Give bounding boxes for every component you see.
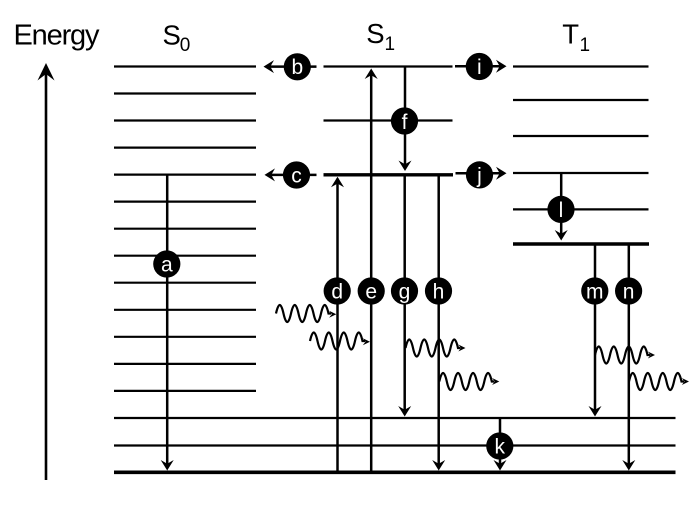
arrow d head	[331, 177, 344, 188]
S0 level line v4	[114, 282, 256, 284]
svg-text:h: h	[433, 280, 445, 303]
arrow f head	[399, 161, 412, 172]
S1 zero level thick line	[324, 173, 454, 176]
svg-text:1: 1	[385, 34, 396, 55]
circle label k	[486, 432, 513, 459]
arrow b shaft	[266, 65, 317, 68]
photon wave into d	[276, 305, 331, 322]
photon wave from h	[439, 373, 494, 390]
photon wave from g head	[458, 345, 465, 352]
arrow l head	[555, 230, 568, 241]
arrow j head	[496, 167, 507, 180]
S0 level line v0	[114, 390, 256, 392]
arrow a head	[161, 460, 174, 471]
ground vibrational line upper	[114, 417, 676, 419]
circle label j	[466, 161, 493, 188]
svg-text:c: c	[291, 164, 302, 187]
svg-text:S: S	[163, 19, 181, 50]
svg-text:k: k	[495, 435, 506, 458]
circle label m	[581, 277, 608, 304]
svg-text:b: b	[291, 56, 303, 79]
circle label f	[391, 107, 418, 134]
arrow e head	[365, 69, 378, 80]
S0 level line v5	[114, 255, 256, 257]
arrow c head	[265, 168, 276, 181]
svg-text:Energy: Energy	[14, 20, 101, 52]
svg-text:f: f	[402, 111, 408, 134]
arrow m shaft	[594, 244, 597, 414]
S0 level line v9	[114, 147, 256, 149]
S0 level line v1	[114, 363, 256, 365]
ground vibrational line lower	[114, 444, 676, 446]
S0 level line v8	[114, 174, 256, 176]
svg-text:m: m	[586, 280, 604, 303]
arrow e shaft	[370, 71, 373, 473]
arrow g shaft	[403, 175, 406, 414]
svg-text:j: j	[476, 164, 482, 187]
arrow h shaft	[437, 175, 440, 468]
S0 level line v3	[114, 309, 256, 311]
S0 level line v11	[114, 92, 256, 94]
arrow m head	[589, 406, 602, 417]
photon wave into d head	[329, 311, 336, 318]
circle label g	[391, 277, 418, 304]
arrow b head	[264, 60, 275, 73]
arrow n shaft	[628, 244, 631, 468]
arrow g head	[398, 406, 411, 417]
photon wave from h head	[492, 378, 499, 385]
svg-text:e: e	[365, 280, 377, 303]
T1 level line 5	[513, 99, 649, 101]
arrow i shaft	[455, 65, 502, 68]
arrow j shaft	[456, 172, 503, 175]
arrow f shaft	[404, 67, 407, 169]
photon wave from m	[595, 347, 650, 364]
svg-text:g: g	[399, 280, 411, 303]
circle label l	[547, 196, 574, 223]
T1 level line 6	[513, 65, 649, 67]
svg-text:i: i	[477, 56, 482, 79]
arrow d shaft	[336, 179, 339, 473]
S1 upper level line	[324, 65, 453, 67]
photon wave into e head	[363, 338, 370, 345]
photon wave from n	[629, 373, 684, 390]
svg-text:1: 1	[580, 35, 591, 56]
T1 level line 3	[513, 172, 649, 174]
circle label d	[324, 277, 351, 304]
arrow k head	[494, 460, 507, 471]
arrow n head	[622, 460, 635, 471]
S0 level line v6	[114, 228, 256, 230]
T1 zero level thick line	[513, 242, 649, 245]
arrow i head	[496, 60, 507, 73]
svg-text:d: d	[331, 280, 343, 303]
circle label b	[284, 53, 311, 80]
circle label c	[283, 161, 310, 188]
photon wave from n head	[682, 378, 689, 385]
svg-text:T: T	[562, 19, 579, 50]
circle label a	[153, 250, 180, 277]
photon wave from g	[406, 340, 461, 357]
S0 level line v2	[114, 336, 256, 338]
arrow k shaft	[499, 418, 502, 468]
S0 level line v12	[114, 65, 256, 67]
svg-text:a: a	[161, 253, 173, 276]
svg-text:l: l	[559, 199, 564, 222]
circle label i	[466, 53, 493, 80]
arrow a shaft	[166, 175, 169, 468]
arrow h head	[432, 460, 445, 471]
svg-text:S: S	[366, 18, 384, 49]
circle label h	[425, 277, 452, 304]
photon wave from m head	[648, 352, 655, 359]
circle label n	[615, 277, 642, 304]
S0 level line v10	[114, 119, 256, 121]
S0 level line v7	[114, 201, 256, 203]
circle label e	[358, 277, 385, 304]
S1 middle level line	[324, 119, 453, 121]
ground state base line	[114, 470, 676, 474]
energy axis arrow	[45, 72, 48, 480]
svg-text:0: 0	[180, 35, 191, 56]
arrow c shaft	[267, 174, 317, 177]
T1 level line 4	[513, 135, 649, 137]
T1 level line 2	[513, 208, 649, 210]
svg-text:n: n	[623, 280, 635, 303]
photon wave into e	[310, 333, 365, 350]
arrow l shaft	[560, 173, 563, 238]
